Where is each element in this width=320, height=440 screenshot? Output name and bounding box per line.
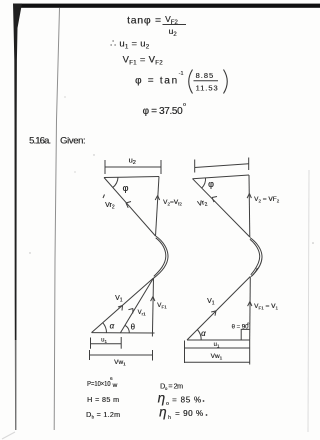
- svg-text:V2 = VF2: V2 = VF2: [254, 196, 280, 204]
- equation 4: phi = arctan(8.85/11.53): [135, 70, 227, 94]
- blade curve right (inner): [250, 239, 260, 275]
- svg-text:5.16a.: 5.16a.: [29, 136, 51, 147]
- svg-text:11.53: 11.53: [196, 84, 218, 93]
- svg-text:o: o: [183, 102, 186, 108]
- svg-text:V2=Vf2: V2=Vf2: [163, 199, 182, 207]
- svg-text:u1: u1: [101, 338, 107, 345]
- Vw1 label right fig: [211, 353, 223, 361]
- dimension line right fig: [195, 158, 249, 173]
- svg-text:VF1 = VF2: VF1 = VF2: [123, 55, 164, 67]
- V1 arrowhead left: [118, 306, 123, 311]
- u1 dimension right fig: [185, 340, 250, 365]
- top triangle left: top edge: [104, 177, 159, 178]
- svg-text:φ = 37.50: φ = 37.50: [143, 106, 183, 117]
- svg-text:H = 85 m: H = 85 m: [87, 395, 119, 404]
- svg-text:tanφ =: tanφ =: [127, 15, 161, 27]
- V2 = Vf2 label: [163, 199, 182, 207]
- Vr1 label left: [138, 310, 147, 317]
- blade end curl right: [251, 268, 257, 277]
- equation 1: tan phi = VF2/u2: [127, 14, 186, 38]
- svg-text:h: h: [168, 415, 171, 421]
- top triangle right: hypotenuse: [193, 179, 250, 237]
- Vr2 label with tick: [103, 195, 115, 211]
- problem number 5.16a: [29, 136, 51, 147]
- svg-text:w: w: [112, 382, 118, 389]
- svg-text:8.85: 8.85: [196, 71, 214, 80]
- top triangle left: right side V2: [156, 177, 160, 237]
- Given: heading: [60, 136, 86, 147]
- svg-text:Vr1: Vr1: [138, 310, 147, 317]
- top triangle right: right side: [248, 175, 251, 237]
- VF1 = V1 label right: [254, 303, 278, 311]
- svg-text:V1: V1: [207, 298, 215, 307]
- phi label right: [208, 179, 214, 189]
- u1 label left fig: [101, 338, 107, 345]
- svg-text:η: η: [158, 391, 166, 406]
- svg-text:∴ u1 = u2: ∴ u1 = u2: [110, 39, 150, 51]
- u1 label right fig: [214, 342, 220, 349]
- phi arc right: [202, 178, 206, 188]
- svg-text:u1: u1: [214, 342, 220, 349]
- svg-text:u2: u2: [129, 156, 136, 167]
- svg-text:Vw1: Vw1: [114, 359, 126, 367]
- alpha label right: [201, 329, 206, 338]
- Vr2 arrowhead right: [212, 197, 217, 203]
- Vw1 dimension right fig: [185, 361, 250, 363]
- bottom triangle left: Vr1 line: [120, 278, 153, 333]
- u1 dimension left fig: [91, 337, 122, 349]
- blade curve right (outer): [250, 238, 262, 277]
- equation 5: phi = 37.50deg: [143, 102, 187, 117]
- given data: eta_o = 85%: [158, 391, 205, 408]
- svg-text:VF1: VF1: [157, 302, 167, 310]
- svg-text:Db = 1.2m: Db = 1.2m: [86, 410, 120, 420]
- V1 arrowhead right: [211, 311, 216, 316]
- VF1 label left: [157, 302, 167, 310]
- bottom triangle right: bottom edge: [187, 339, 250, 341]
- blade curve left (outer): [154, 236, 168, 278]
- theta label left: [131, 323, 136, 332]
- given data: Db = 1.2m: [86, 410, 120, 420]
- svg-text:= 85 %: = 85 %: [172, 396, 201, 405]
- svg-text:-1: -1: [179, 71, 184, 77]
- Vr2 arrowhead: [126, 202, 131, 208]
- equation 2: therefore u1 = u2: [110, 39, 150, 51]
- svg-text:V1: V1: [115, 295, 123, 304]
- VF1 arrow up left: [151, 297, 155, 302]
- svg-text:φ: φ: [123, 183, 129, 193]
- scan top border: [15, 4, 320, 8]
- svg-text:Vr2: Vr2: [105, 202, 115, 211]
- Vw1 label left fig: [114, 359, 126, 367]
- svg-text:6: 6: [110, 376, 113, 381]
- right angle square: [241, 329, 250, 340]
- scan left border: [13, 4, 22, 433]
- alpha arc left: [103, 323, 107, 333]
- margin rule line: [54, 8, 59, 430]
- V2 = VF2 label right: [254, 196, 280, 204]
- theta arc left: [125, 325, 129, 333]
- bottom-left smudge: [2, 432, 15, 439]
- top triangle left: hypotenuse Vr2: [104, 178, 156, 237]
- phi label left: [123, 183, 129, 193]
- V2 arrow up: [155, 196, 159, 201]
- top triangle right: top edge: [193, 175, 250, 179]
- svg-text:P=10×10: P=10×10: [87, 381, 111, 388]
- V1 label left: [115, 295, 123, 304]
- svg-text:α: α: [110, 322, 115, 331]
- svg-text:θ: θ: [131, 323, 136, 332]
- svg-text:= 90 %: = 90 %: [175, 409, 203, 418]
- alpha label left: [110, 322, 115, 331]
- bottom triangle left: right side VF1: [152, 278, 153, 337]
- V2 arrow up right: [247, 194, 251, 199]
- dimension u2 line: [105, 160, 161, 174]
- blade curve left (inner): [154, 238, 166, 277]
- Vr1 arrowhead left: [128, 309, 133, 314]
- bottom triangle right: right vertical: [249, 277, 252, 341]
- svg-text:η: η: [159, 405, 167, 420]
- alpha arc right: [197, 330, 201, 341]
- svg-text:α: α: [201, 329, 206, 338]
- svg-text:VF1 = V1: VF1 = V1: [254, 303, 278, 311]
- svg-text:u2: u2: [169, 26, 178, 38]
- bottom triangle left: hypotenuse V1: [92, 278, 154, 333]
- equation 3: VF1 = VF2: [123, 55, 164, 67]
- label u2: [129, 156, 136, 167]
- bottom triangle right: hypotenuse V1: [187, 277, 250, 341]
- theta = 90 label right: [232, 321, 251, 331]
- Vr2 label right: [197, 199, 209, 210]
- svg-text:Given:: Given:: [60, 136, 86, 147]
- phi arc left: [113, 177, 118, 187]
- svg-text:Vw1: Vw1: [211, 353, 223, 361]
- given data: eta_h = 90%: [159, 405, 207, 422]
- VF1 arrow up right: [248, 302, 252, 307]
- bottom triangle left: bottom edge: [92, 332, 155, 334]
- svg-text:φ = tan: φ = tan: [135, 76, 177, 87]
- paper specks: [29, 96, 314, 253]
- svg-text:Vr2: Vr2: [197, 199, 209, 210]
- svg-text:φ: φ: [208, 179, 214, 189]
- V1 label right: [207, 298, 215, 307]
- given data: P = 10x10^6 W: [87, 376, 118, 389]
- given data: Do = 2m: [160, 382, 183, 392]
- faint right page edge: [308, 170, 309, 432]
- Vw1 dimension left fig: [90, 350, 153, 361]
- given data: H = 85m: [87, 395, 119, 404]
